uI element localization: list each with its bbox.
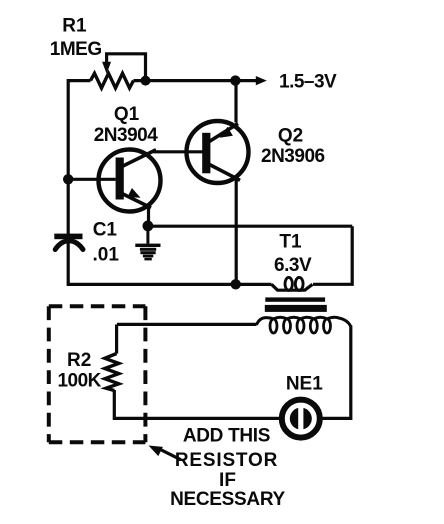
svg-text:2N3906: 2N3906 [261,146,325,167]
svg-text:Q1: Q1 [114,104,140,125]
label R1 [62,16,87,37]
transformer T1 primary winding [272,277,313,290]
label T1 [279,231,302,252]
svg-text:NECESSARY: NECESSARY [170,489,285,510]
svg-text:C1: C1 [93,220,118,241]
R1 wiper arrow [102,62,111,74]
svg-text:R2: R2 [67,350,91,371]
wire: emitter node to T1 right side (top edge) [148,225,352,228]
dashed box around R2 [49,306,146,442]
resistor R1 [91,73,134,88]
junction: emitter/ground node [143,221,154,232]
C1 value label .01 [93,244,120,265]
svg-text:T1: T1 [279,231,302,252]
junction: supply node [230,75,240,85]
wire: T1 right side down and to primary right terminal [313,226,352,284]
label R2 [67,350,91,371]
transistor Q2 [187,121,249,183]
Q1 value label 2N3904 [94,125,158,146]
svg-text:.01: .01 [93,244,120,265]
junction: Q2 collector / primary node [231,279,241,289]
wire: Q2 collector down to primary node [235,179,238,285]
label NE1 [286,373,323,394]
junction: Q1 base node on left rail [63,174,73,184]
wire: Q1 base lead [68,178,116,181]
wire: supply node down to Q2 emitter [234,81,237,123]
svg-text:ADD THIS: ADD THIS [183,426,270,447]
svg-text:2N3904: 2N3904 [94,125,158,146]
wire: Q1 collector to Q2 base [153,150,205,153]
note label line 1: ADD THIS [183,426,270,447]
svg-text:6.3V: 6.3V [274,255,312,276]
svg-text:1MEG: 1MEG [50,39,102,60]
label Q2 [278,126,303,147]
neon lamp NE1 [282,400,320,438]
R1 value label 1MEG [50,39,102,60]
svg-text:R1: R1 [62,16,87,37]
wire: R1 wiper loop [107,54,146,81]
wire: secondary right down to NE1 right terminal [323,326,351,419]
callout arrow to dashed box [149,446,182,460]
wire: left rail (R1 left terminal down to bottom rail, corner to T1 primary) [68,81,271,285]
resistor R2 [105,354,119,391]
supply arrow [235,76,266,85]
ground [135,226,160,261]
label Q1 [114,104,140,125]
note label line 3: IF [219,470,236,491]
transformer T1 secondary winding [257,317,351,333]
svg-text:Q2: Q2 [278,126,303,147]
label C1 [93,220,118,241]
svg-text:100K: 100K [57,371,101,392]
transformer T1 core [265,297,327,312]
svg-text:IF: IF [219,470,236,491]
wire: R2 top lead from secondary left [115,324,118,353]
wire: R2 bottom lead to NE1 left terminal [114,390,279,418]
note label line 4: NECESSARY [170,489,285,510]
R2 value label 100K [57,371,101,392]
note label line 2: RESISTOR [175,450,278,471]
supply label 1.5-3V [279,72,337,93]
svg-text:RESISTOR: RESISTOR [175,450,278,471]
wire: Q1 emitter down to ground node [147,206,150,227]
junction: R1 right terminal / wiper [141,76,151,86]
svg-text:NE1: NE1 [286,373,323,394]
T1 value label 6.3V [274,255,312,276]
transistor Q1 [99,150,161,212]
capacitor C1 [54,234,83,250]
Q2 value label 2N3906 [261,146,325,167]
svg-text:1.5–3V: 1.5–3V [279,72,337,93]
wire: top rail from R1 right terminal to supply node [134,79,236,82]
wire: secondary left lead to R2 [117,323,257,326]
